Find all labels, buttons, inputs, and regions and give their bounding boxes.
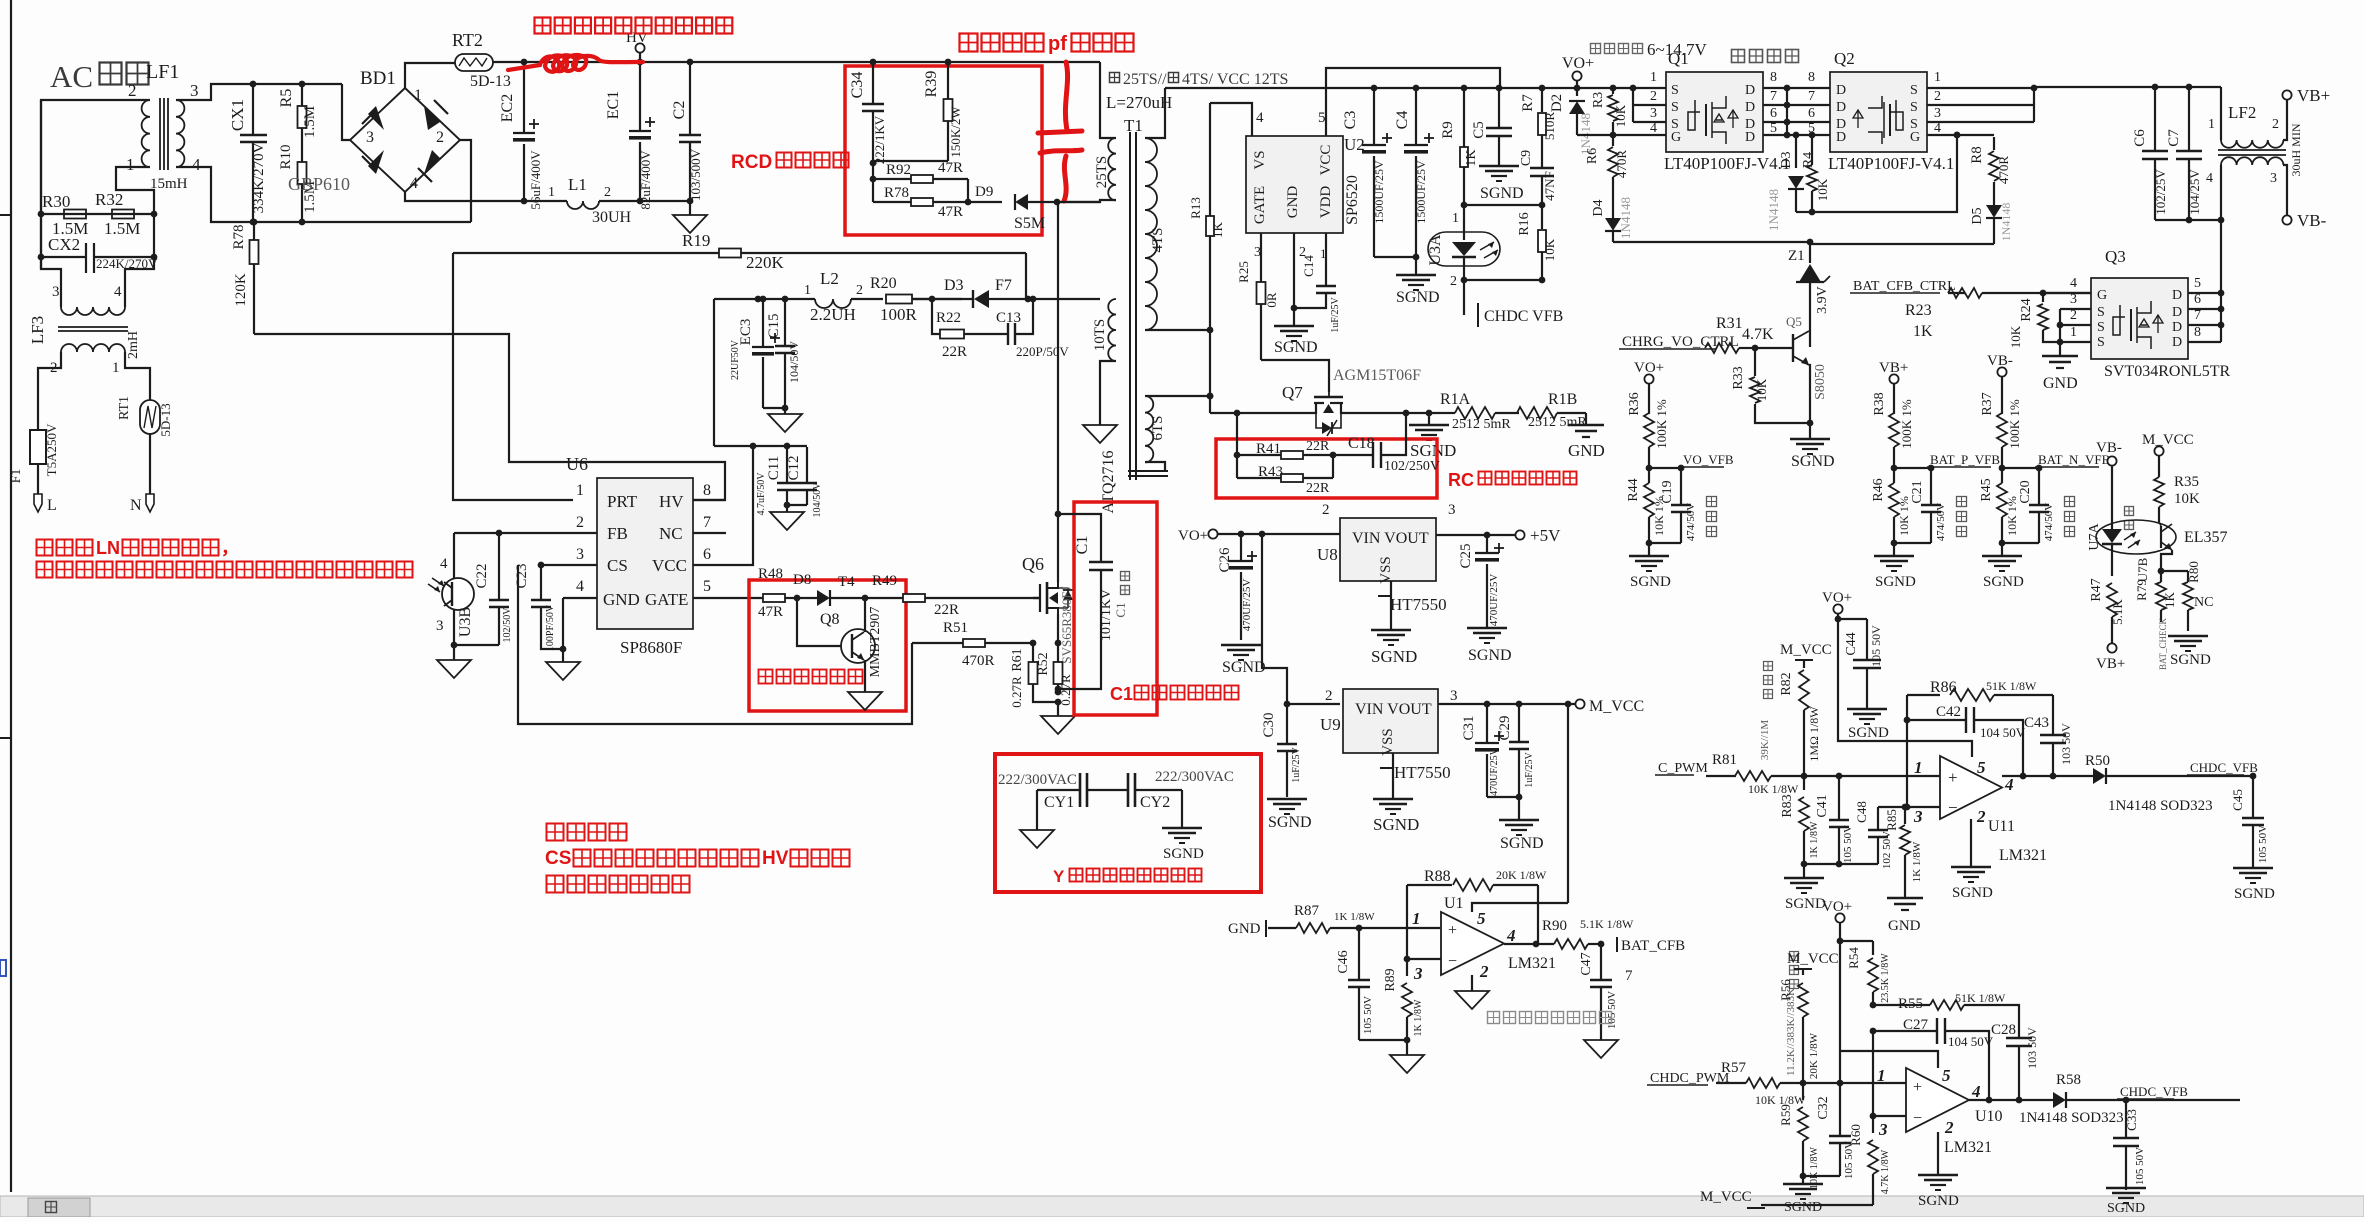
wire C11 rail xyxy=(714,445,807,447)
svg-text:104/25V: 104/25V xyxy=(2187,169,2202,215)
svg-text:D3: D3 xyxy=(1779,151,1794,168)
resistor R80 NC xyxy=(2161,570,2188,572)
red text 不知道LN是否有引线 xyxy=(37,540,53,556)
svg-text:T4: T4 xyxy=(838,574,855,590)
svg-text:1: 1 xyxy=(126,155,135,174)
ground Q6 source xyxy=(1041,716,1075,734)
svg-text:R49: R49 xyxy=(872,573,897,589)
svg-text:105 50V: 105 50V xyxy=(1362,996,1374,1034)
svg-text:8: 8 xyxy=(1808,70,1815,85)
svg-text:3: 3 xyxy=(436,618,444,634)
ground U6 xyxy=(546,662,580,680)
svg-text:D: D xyxy=(2172,288,2182,303)
wire LF1 pin3 to top bus xyxy=(176,84,342,100)
wire LF1 pin4 to bottom bus xyxy=(176,167,471,222)
svg-text:U11: U11 xyxy=(1988,818,2015,835)
svg-text:105 50V: 105 50V xyxy=(1843,1141,1855,1179)
svg-text:CY1: CY1 xyxy=(1044,794,1074,811)
svg-text:22R: 22R xyxy=(942,344,967,360)
svg-text:SVT034RONL5TR: SVT034RONL5TR xyxy=(2104,363,2231,380)
svg-text:HT7550: HT7550 xyxy=(1390,595,1447,614)
svg-text:4.7uF/50V: 4.7uF/50V xyxy=(756,472,767,516)
ground U3B xyxy=(453,645,455,660)
svg-text:C29: C29 xyxy=(1497,715,1513,740)
svg-text:C42: C42 xyxy=(1936,704,1961,720)
svg-text:2: 2 xyxy=(604,185,611,200)
wire VCC to C11 rail xyxy=(713,299,715,446)
svg-text:2: 2 xyxy=(856,283,863,298)
svg-text:M_VCC: M_VCC xyxy=(2142,432,2194,448)
svg-text:SGND: SGND xyxy=(1875,574,1916,590)
svg-text:Q5: Q5 xyxy=(1786,314,1802,329)
svg-text:R56: R56 xyxy=(1778,979,1793,1001)
svg-text:D4: D4 xyxy=(1591,199,1606,216)
svg-text:EC2: EC2 xyxy=(499,94,516,122)
resistor R16 10K xyxy=(1539,202,1546,209)
svg-text:R88: R88 xyxy=(1424,868,1451,885)
svg-text:ATQ2716: ATQ2716 xyxy=(1100,450,1117,513)
svg-text:NC: NC xyxy=(659,524,683,543)
svg-text:R89: R89 xyxy=(1383,968,1398,991)
wire Q8 emitter to ground xyxy=(864,660,866,692)
wire BD1 corner3 xyxy=(342,84,350,140)
wire pin5 supply xyxy=(1840,1051,1938,1068)
svg-text:SGND: SGND xyxy=(1268,814,1312,831)
svg-text:VO+: VO+ xyxy=(1562,55,1594,72)
svg-text:1N4148: 1N4148 xyxy=(1618,197,1633,239)
svg-text:VCC: VCC xyxy=(1318,145,1334,176)
wire minus xyxy=(1407,958,1441,960)
svg-text:C18: C18 xyxy=(1348,435,1375,452)
svg-text:2: 2 xyxy=(436,129,444,146)
wire VO+ to U9 xyxy=(1262,534,1287,704)
svg-text:Q6: Q6 xyxy=(1022,554,1044,574)
svg-text:4TS/ VCC 12TS: 4TS/ VCC 12TS xyxy=(1182,71,1288,88)
svg-text:D: D xyxy=(1836,83,1846,98)
svg-text:8: 8 xyxy=(2194,325,2201,340)
svg-text:4: 4 xyxy=(1971,1082,1981,1101)
svg-text:104 50V: 104 50V xyxy=(1948,1034,1994,1049)
svg-text:VDD: VDD xyxy=(1318,186,1334,219)
wire C34-R39 join xyxy=(873,160,948,162)
ground C3 C4 xyxy=(1415,257,1417,275)
svg-text:3: 3 xyxy=(1450,688,1458,704)
terminal VB- xyxy=(2283,165,2287,215)
wire Q5 emitter xyxy=(1809,365,1810,423)
svg-text:S: S xyxy=(1910,83,1918,98)
svg-text:5: 5 xyxy=(1477,909,1486,928)
svg-text:RT2: RT2 xyxy=(452,30,483,50)
svg-text:S: S xyxy=(2097,320,2105,335)
svg-text:C11: C11 xyxy=(766,456,782,480)
svg-text:R52: R52 xyxy=(1036,652,1051,675)
wire U3A pin2 row xyxy=(1464,279,1542,281)
ground R45 xyxy=(2001,543,2003,556)
svg-text:1: 1 xyxy=(1914,758,1923,777)
svg-text:47R: 47R xyxy=(938,204,963,220)
svg-text:10K: 10K xyxy=(1815,178,1830,201)
wire C6 C7 bottom xyxy=(2155,219,2221,221)
svg-text:R3: R3 xyxy=(1591,92,1606,108)
svg-text:105 50V: 105 50V xyxy=(2134,1147,2146,1185)
svg-text:1500UF/25V: 1500UF/25V xyxy=(1372,160,1386,224)
svg-text:3: 3 xyxy=(1913,807,1923,826)
svg-text:105 50V: 105 50V xyxy=(1869,625,1883,667)
red pen inductor scribble xyxy=(508,55,643,72)
svg-text:SGND: SGND xyxy=(1791,453,1835,470)
resistor R44 10K 1% xyxy=(1644,483,1654,517)
svg-text:VB-: VB- xyxy=(1987,353,2013,369)
svg-text:10K: 10K xyxy=(2008,325,2023,348)
svg-text:R54: R54 xyxy=(1846,947,1861,969)
svg-text:SGND: SGND xyxy=(1918,1193,1959,1209)
svg-text:51K 1/8W: 51K 1/8W xyxy=(1955,991,2006,1005)
wire Q1 D pins tie xyxy=(1763,87,1830,89)
capacitor C11 xyxy=(786,447,788,483)
ic U2 SP6520 xyxy=(1246,136,1343,233)
svg-text:C45: C45 xyxy=(2230,789,2245,811)
svg-text:1.5M: 1.5M xyxy=(302,106,318,138)
svg-text:C25: C25 xyxy=(1458,543,1474,568)
svg-text:3: 3 xyxy=(190,81,199,100)
svg-text:3: 3 xyxy=(1413,964,1423,983)
svg-text:U7A: U7A xyxy=(2087,523,2102,551)
svg-text:U6: U6 xyxy=(566,454,588,474)
svg-text:2: 2 xyxy=(1976,807,1986,826)
svg-text:LT40P100FJ-V4.1: LT40P100FJ-V4.1 xyxy=(1828,154,1954,173)
svg-text:2: 2 xyxy=(1325,688,1333,704)
svg-text:10TS: 10TS xyxy=(1092,319,1108,352)
svg-text:Q8: Q8 xyxy=(820,611,840,628)
wire 4TS bottom xyxy=(1145,329,1210,331)
resistor R6 470R xyxy=(1612,135,1614,146)
svg-text:SGND: SGND xyxy=(1480,185,1524,202)
wire U6 pin8 HV stub xyxy=(693,499,725,501)
svg-text:U2: U2 xyxy=(1344,135,1365,154)
svg-text:104/50V: 104/50V xyxy=(812,482,823,518)
svg-text:−: − xyxy=(1948,798,1958,817)
opamp U10 LM321 xyxy=(1906,1068,1969,1132)
red text pf capacitor 尝试增加pf级电容 xyxy=(960,34,978,52)
svg-text:470R: 470R xyxy=(1614,150,1629,179)
svg-text:R32: R32 xyxy=(95,190,123,209)
svg-text:3: 3 xyxy=(366,129,374,146)
svg-text:20K 1/8W: 20K 1/8W xyxy=(1808,1032,1820,1079)
svg-text:1N4148 SOD323: 1N4148 SOD323 xyxy=(2108,798,2213,814)
svg-text:RC: RC xyxy=(1448,470,1474,490)
ground CY1 xyxy=(1036,790,1038,830)
svg-text:10K: 10K xyxy=(2174,491,2200,507)
svg-text:PRT: PRT xyxy=(607,492,638,511)
svg-text:LM321: LM321 xyxy=(1944,1139,1992,1156)
svg-text:3: 3 xyxy=(52,284,60,300)
svg-text:SGND: SGND xyxy=(1952,885,1993,901)
wire U3B pin3 gnd xyxy=(454,609,499,645)
red annotation box RCD xyxy=(845,66,1042,235)
wire R25 to Q7 gate xyxy=(1261,360,1329,392)
wire U8 out xyxy=(1436,534,1515,536)
label 主25TS//次4TS/ VCC 12TS xyxy=(1110,73,1120,83)
ground CY2 SGND xyxy=(1181,790,1183,828)
svg-text:1: 1 xyxy=(576,482,584,499)
svg-text:R33: R33 xyxy=(1731,366,1746,389)
svg-text:2: 2 xyxy=(2070,308,2077,323)
svg-text:5: 5 xyxy=(1318,110,1326,126)
svg-text:4: 4 xyxy=(2004,775,2014,794)
svg-text:120K: 120K xyxy=(233,273,249,307)
svg-text:+: + xyxy=(1913,1079,1922,1096)
wire R88 left xyxy=(1406,885,1408,959)
svg-text:C9: C9 xyxy=(1519,150,1534,166)
svg-text:R8: R8 xyxy=(1969,146,1985,164)
ground U8 xyxy=(1371,629,1411,632)
svg-text:105 50V: 105 50V xyxy=(1842,825,1854,863)
transistor Q5 S8050 xyxy=(1752,345,1759,352)
resistor R35 10K xyxy=(2158,456,2160,477)
svg-text:R78: R78 xyxy=(231,224,247,249)
net VO_VFB xyxy=(1649,467,1680,469)
svg-text:39K//1M: 39K//1M xyxy=(1759,720,1771,761)
svg-text:R1B: R1B xyxy=(1548,391,1577,408)
svg-text:VIN VOUT: VIN VOUT xyxy=(1352,530,1429,547)
gray text 放灯板 3 xyxy=(2065,497,2075,507)
svg-text:100K 1%: 100K 1% xyxy=(1654,399,1669,449)
wire CX2 left down to LF3 xyxy=(40,257,42,269)
svg-text:2mH: 2mH xyxy=(126,331,141,359)
wire secondary bus xyxy=(1165,87,1633,89)
frame tick y738 xyxy=(0,737,11,739)
capacitor C9 47NF xyxy=(1530,167,1554,169)
svg-text:AC: AC xyxy=(50,59,93,94)
wire BD1 corner2 xyxy=(460,140,471,222)
wire M_VCC down to U1 pin5 xyxy=(1567,704,1569,903)
svg-text:R23: R23 xyxy=(1905,302,1932,319)
svg-text:MMBT2907: MMBT2907 xyxy=(868,607,883,678)
svg-text:220K: 220K xyxy=(746,253,785,272)
svg-text:2: 2 xyxy=(1450,274,1457,289)
gray text 光耦 xyxy=(2125,507,2134,516)
ground U2 xyxy=(1293,308,1295,326)
wire LF3 pin1 to RT1 xyxy=(125,352,150,400)
svg-text:R47: R47 xyxy=(2089,578,2104,601)
label M_VCC bottom xyxy=(1761,1204,1873,1206)
svg-text:CX2: CX2 xyxy=(48,235,80,254)
svg-text:3: 3 xyxy=(1878,1120,1888,1139)
svg-text:10K: 10K xyxy=(1754,378,1769,401)
svg-text:SGND: SGND xyxy=(1500,835,1544,852)
wire bus to primary top xyxy=(1100,62,1116,138)
svg-text:GATE: GATE xyxy=(645,590,688,609)
wire R44 C19 join xyxy=(1649,542,1681,544)
svg-text:CX1: CX1 xyxy=(228,99,247,131)
svg-text:C1: C1 xyxy=(1074,536,1091,555)
svg-text:C4: C4 xyxy=(1394,111,1411,130)
svg-text:7: 7 xyxy=(1770,89,1777,104)
svg-text:R30: R30 xyxy=(42,192,70,211)
svg-text:+: + xyxy=(1948,768,1958,787)
svg-text:R78: R78 xyxy=(884,185,909,201)
svg-text:CS: CS xyxy=(607,556,628,575)
ground C11 C12 xyxy=(786,505,788,512)
diode Q6 body xyxy=(1067,588,1069,608)
svg-text:1.5M: 1.5M xyxy=(104,219,140,238)
svg-text:10K 1/8W: 10K 1/8W xyxy=(1748,782,1799,796)
svg-text:474/50V: 474/50V xyxy=(1685,503,1697,542)
svg-text:L1: L1 xyxy=(568,175,587,194)
svg-text:C22: C22 xyxy=(474,563,490,588)
svg-text:470UF/25V: 470UF/25V xyxy=(1489,747,1500,796)
svg-text:7: 7 xyxy=(1808,89,1815,104)
resistor R78 120K xyxy=(251,219,258,226)
svg-text:334K/270V: 334K/270V xyxy=(251,142,267,213)
wire Q3 left pins xyxy=(2043,292,2091,294)
wire bottoms join xyxy=(1804,863,1878,865)
svg-text:47R: 47R xyxy=(938,160,963,176)
wire U6 pin3 CS xyxy=(541,564,597,566)
svg-text:103 50V: 103 50V xyxy=(2025,1027,2039,1069)
wire sense node xyxy=(912,642,963,644)
svg-text:2: 2 xyxy=(1944,1118,1954,1137)
wire R54 node down to minus xyxy=(1872,1031,1874,1116)
capacitor C44 xyxy=(1838,618,1867,620)
svg-text:1uF/25V: 1uF/25V xyxy=(1524,751,1535,787)
wire feedback node xyxy=(1906,695,1908,807)
svg-text:C21: C21 xyxy=(1910,480,1925,503)
svg-text:1K 1/8W: 1K 1/8W xyxy=(1911,841,1923,882)
wire C48 to minus xyxy=(1877,807,1879,830)
svg-text:1uF/25V: 1uF/25V xyxy=(1330,296,1341,332)
opto transistor side xyxy=(2160,526,2162,548)
svg-text:R7: R7 xyxy=(1520,94,1536,112)
svg-text:D3: D3 xyxy=(944,277,964,294)
svg-text:51K 1/8W: 51K 1/8W xyxy=(1986,679,2037,693)
frame left border line xyxy=(10,0,12,1192)
svg-text:R16: R16 xyxy=(1517,212,1532,235)
svg-text:10K 1/8W: 10K 1/8W xyxy=(1809,1146,1820,1189)
svg-text:U3B: U3B xyxy=(457,607,474,637)
wire VCC line xyxy=(714,298,815,300)
svg-text:0R: 0R xyxy=(1264,292,1279,308)
svg-text:G: G xyxy=(1910,130,1920,145)
svg-text:7: 7 xyxy=(2194,308,2201,323)
resistor R33 10K xyxy=(1754,348,1756,376)
svg-text:D: D xyxy=(1745,130,1755,145)
svg-text:470R: 470R xyxy=(1996,156,2011,185)
wire CX2 right down xyxy=(125,214,154,307)
svg-text:R25: R25 xyxy=(1236,261,1251,283)
svg-text:LM321: LM321 xyxy=(1999,847,2047,864)
svg-text:SGND: SGND xyxy=(1848,725,1889,741)
wire 6TS bottom xyxy=(1145,462,1165,470)
svg-text:LF3: LF3 xyxy=(28,316,47,344)
capacitor C15 xyxy=(782,296,789,303)
T1 secondary 4TS xyxy=(1145,138,1157,330)
capacitor EC1 xyxy=(639,62,641,131)
ground R83 SGND xyxy=(1803,864,1805,878)
red annotation box C1 xyxy=(1074,502,1157,715)
opamp U11 LM321 xyxy=(1940,756,2002,819)
svg-text:2: 2 xyxy=(2272,117,2279,132)
svg-text:VO+: VO+ xyxy=(1178,528,1208,544)
svg-text:220P/50V: 220P/50V xyxy=(1016,344,1069,359)
svg-text:−: − xyxy=(1448,953,1457,970)
wire LF1 pin2 to left rail xyxy=(41,100,150,307)
svg-text:D: D xyxy=(1836,130,1846,145)
svg-text:1: 1 xyxy=(2070,325,2077,340)
ic U9 HT7550 xyxy=(1343,689,1438,753)
svg-text:R5: R5 xyxy=(278,89,295,108)
ground R46 xyxy=(1893,543,1895,556)
net BAT_P_VFB xyxy=(1894,467,1928,469)
svg-text:22UF50V: 22UF50V xyxy=(730,339,741,380)
wire VO bus xyxy=(1633,87,1666,89)
ground R80 xyxy=(2168,635,2208,638)
capacitor C6 xyxy=(2152,84,2159,91)
svg-text:SGND: SGND xyxy=(1983,574,2024,590)
svg-text:2.2UH: 2.2UH xyxy=(810,305,856,324)
svg-text:4: 4 xyxy=(440,556,448,572)
capacitor C4 1500UF xyxy=(1413,85,1420,92)
svg-text:GND: GND xyxy=(1888,918,1921,934)
terminal +5V xyxy=(1515,530,1524,539)
red pen capacitor scribble xyxy=(1038,62,1082,201)
svg-text:BAT_CFB: BAT_CFB xyxy=(1621,938,1685,954)
wire U6 gnd pin to ground xyxy=(562,598,564,649)
svg-text:10K: 10K xyxy=(1542,238,1557,261)
svg-text:SGND: SGND xyxy=(1371,647,1417,666)
svg-text:SGND: SGND xyxy=(1163,846,1204,862)
svg-text:10K: 10K xyxy=(1613,104,1628,127)
red text 布板上 xyxy=(547,824,564,841)
svg-text:1K: 1K xyxy=(1913,323,1933,340)
svg-text:1: 1 xyxy=(112,360,120,376)
svg-text:4: 4 xyxy=(1934,121,1941,136)
svg-text:1K 1/8W: 1K 1/8W xyxy=(1809,821,1820,859)
svg-text:C41: C41 xyxy=(1815,794,1830,817)
ground U11 xyxy=(1951,866,1991,869)
wire 4TS-6TS junction xyxy=(1209,330,1211,413)
svg-text:5D-13: 5D-13 xyxy=(470,73,511,90)
svg-text:30uH MIN: 30uH MIN xyxy=(2289,123,2303,176)
svg-text:S: S xyxy=(2097,305,2105,320)
svg-text:C31: C31 xyxy=(1461,715,1477,740)
svg-text:VB-: VB- xyxy=(2096,440,2122,456)
svg-text:GND: GND xyxy=(2043,375,2078,392)
T1 winding 6TS xyxy=(1145,396,1153,462)
svg-text:C44: C44 xyxy=(1844,632,1859,655)
svg-text:1500UF/25V: 1500UF/25V xyxy=(1414,160,1428,224)
svg-text:103/500V: 103/500V xyxy=(688,148,703,201)
svg-text:U7B: U7B xyxy=(2135,557,2150,582)
svg-text:R24: R24 xyxy=(2019,298,2034,321)
svg-text:D: D xyxy=(2172,305,2182,320)
svg-text:1K: 1K xyxy=(1464,149,1479,166)
svg-text:101/1KV: 101/1KV xyxy=(1099,589,1114,641)
svg-text:R19: R19 xyxy=(682,231,710,250)
svg-text:SGND: SGND xyxy=(1396,289,1440,306)
svg-text:LN: LN xyxy=(96,538,120,558)
svg-text:C14: C14 xyxy=(1301,255,1316,277)
svg-text:LF1: LF1 xyxy=(146,61,179,83)
svg-text:R59: R59 xyxy=(1778,1104,1793,1126)
ground C33 xyxy=(2106,1187,2146,1190)
svg-text:VB-: VB- xyxy=(2297,211,2327,230)
wire 25TS bottom xyxy=(1057,200,1116,202)
svg-text:1K: 1K xyxy=(2162,591,2177,608)
svg-text:1: 1 xyxy=(2208,117,2215,132)
svg-text:U10: U10 xyxy=(1975,1108,2003,1125)
svg-text:R80: R80 xyxy=(2186,561,2201,583)
